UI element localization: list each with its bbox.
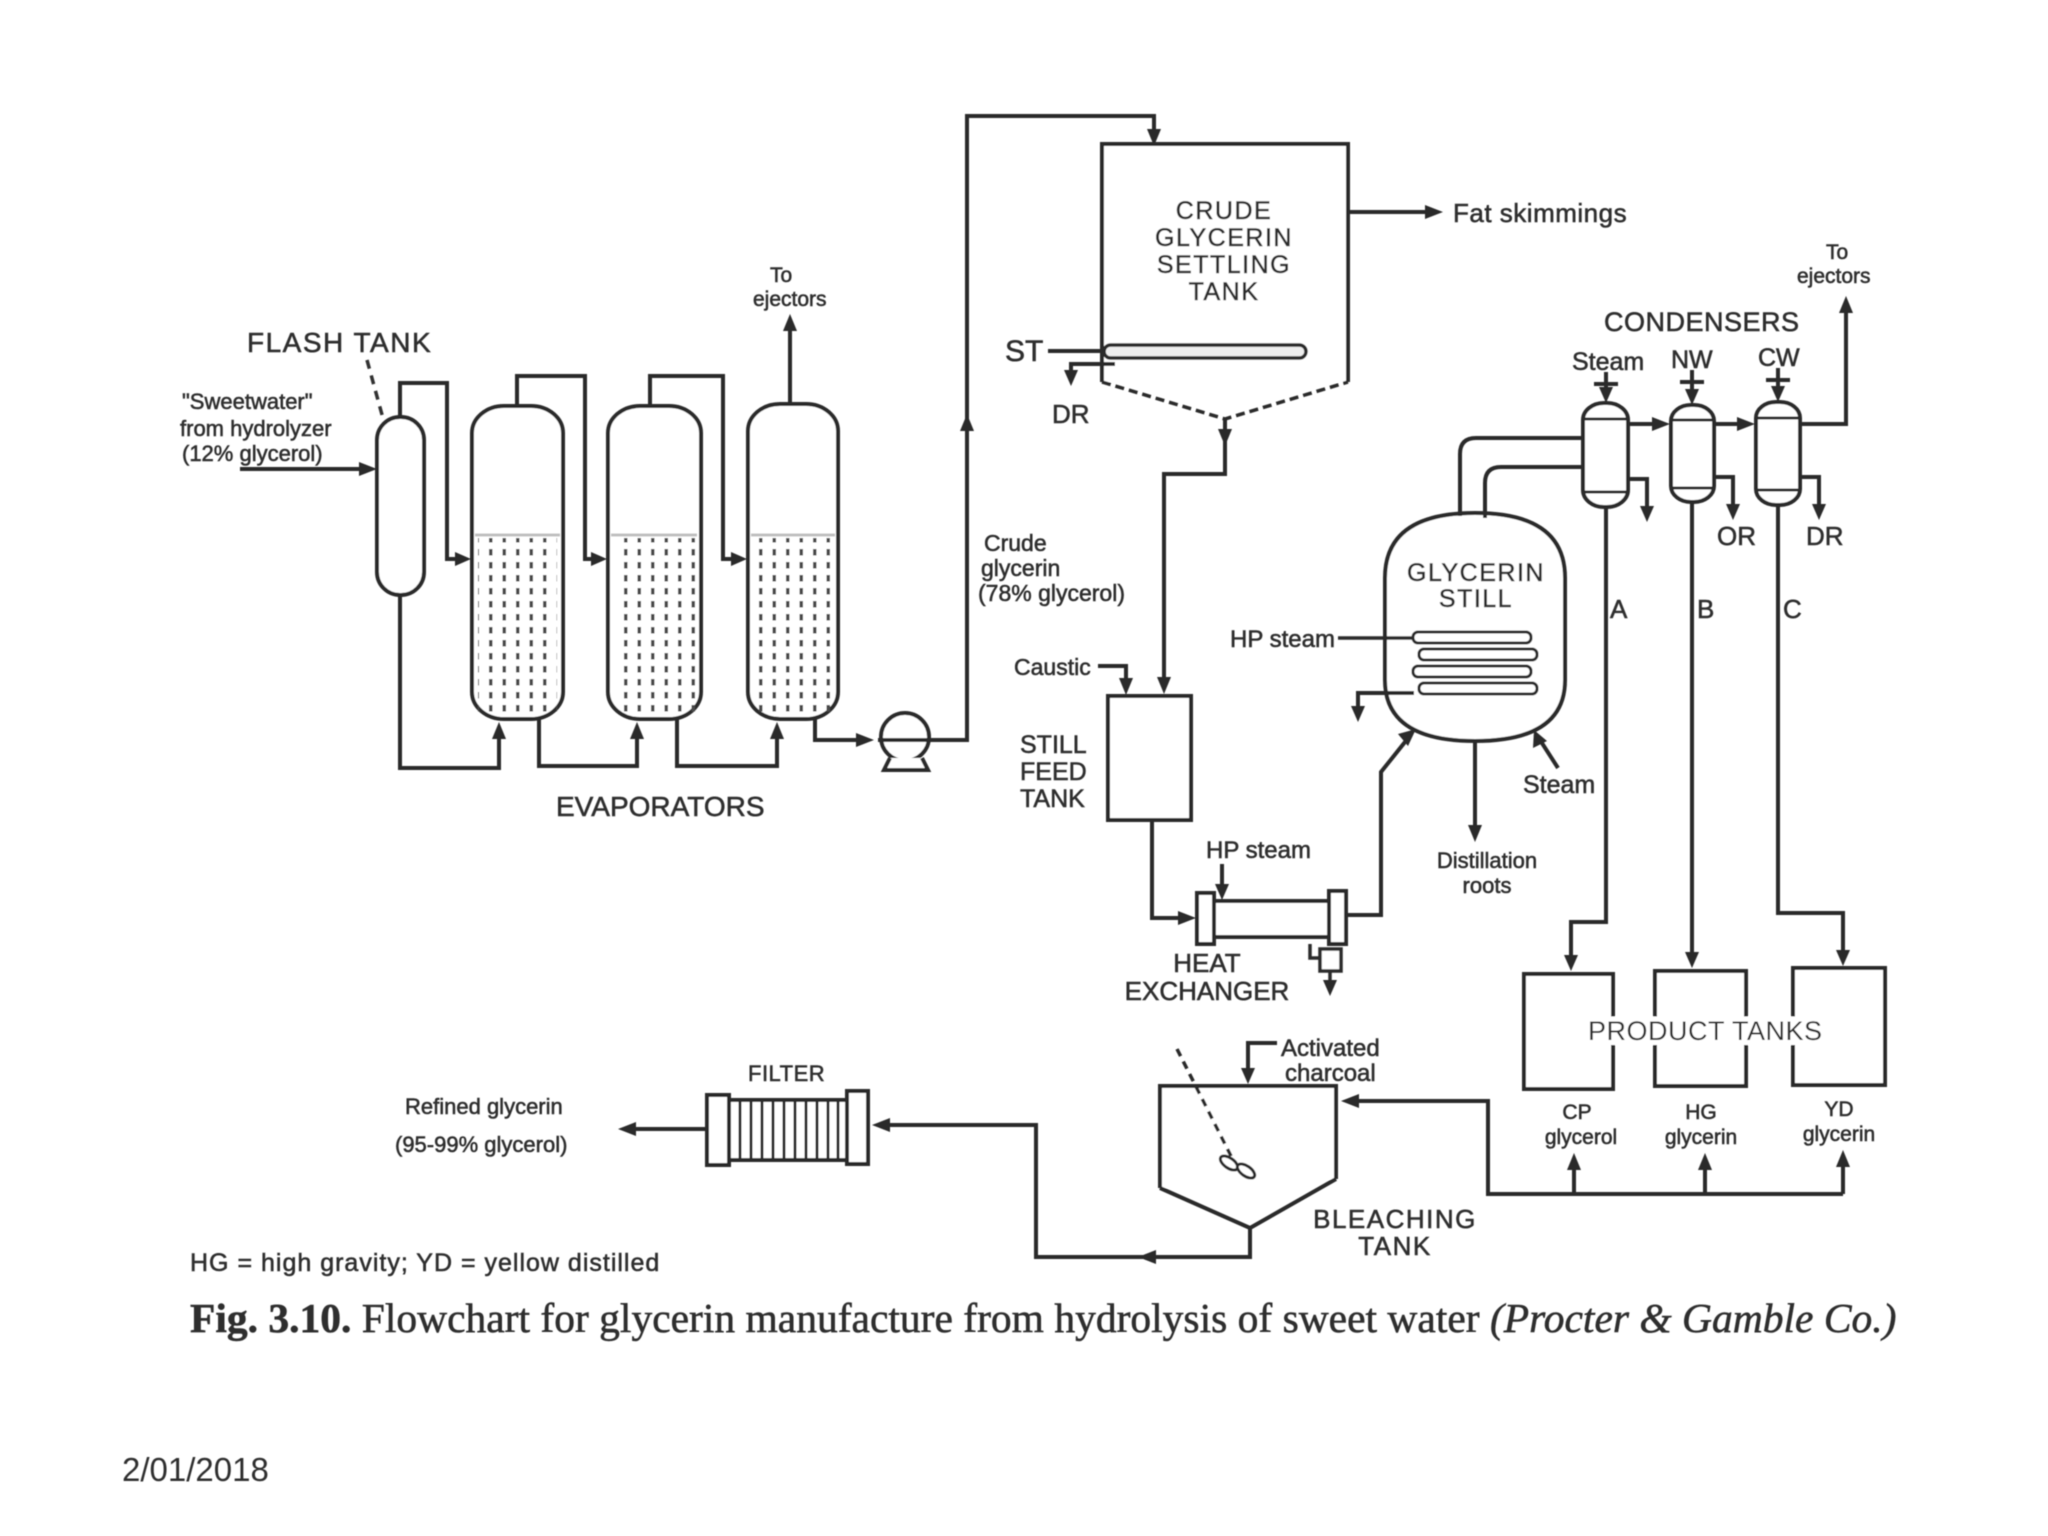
condenser 1 drain bbox=[1628, 479, 1647, 512]
wire: DR drain line bbox=[1071, 364, 1115, 376]
svg-text:glycerol: glycerol bbox=[1545, 1126, 1617, 1149]
svg-text:(12% glycerol): (12% glycerol) bbox=[182, 441, 323, 466]
heat exchanger shell bbox=[1197, 891, 1346, 944]
still feed tank bbox=[1108, 696, 1191, 820]
pump bbox=[881, 713, 929, 770]
svg-text:ST: ST bbox=[1005, 335, 1043, 368]
wire: sweetwater feed arrow bbox=[240, 462, 377, 476]
wire: evap1 bottoms to evap2 bbox=[539, 719, 637, 766]
condenser 2 drain bbox=[1714, 477, 1733, 510]
wire: line B to product tank 2 bbox=[1690, 502, 1694, 959]
wire: still feed tank to heat exchanger bbox=[1152, 820, 1186, 918]
svg-text:CW: CW bbox=[1758, 344, 1800, 372]
svg-text:Fig. 3.10. Flowchart for glyc: Fig. 3.10. Flowchart for glycerin manufa… bbox=[190, 1295, 1896, 1342]
wire: condenser1 to condenser2 bbox=[1628, 422, 1662, 426]
svg-text:CRUDE: CRUDE bbox=[1176, 197, 1272, 225]
svg-text:(78% glycerol): (78% glycerol) bbox=[978, 580, 1125, 606]
wire: fat skimmings arrow bbox=[1348, 210, 1428, 214]
label Refined glycerin bbox=[395, 1094, 567, 1157]
still heating coil bbox=[1413, 632, 1537, 694]
wire: HX outlet to glycerin still bbox=[1346, 737, 1409, 915]
svg-text:HG: HG bbox=[1685, 1101, 1717, 1124]
wire: refined glycerin outlet bbox=[630, 1127, 707, 1131]
wire: evap3 bottoms to pump bbox=[815, 719, 860, 740]
wire: HP steam arrow into HX bbox=[1220, 864, 1224, 893]
svg-text:YD: YD bbox=[1824, 1098, 1853, 1121]
evaporator 2 packing dots bbox=[614, 538, 695, 712]
svg-text:glycerin: glycerin bbox=[1803, 1123, 1875, 1146]
wire: ST line bbox=[1048, 349, 1110, 353]
svg-text:Refined glycerin: Refined glycerin bbox=[405, 1094, 563, 1119]
condenser 3 drain bbox=[1800, 477, 1819, 510]
evaporator 2 liquid level bbox=[611, 534, 697, 537]
svg-text:PRODUCT TANKS: PRODUCT TANKS bbox=[1588, 1016, 1823, 1046]
wire: still overhead duct to condenser 1 (outer) bbox=[1460, 438, 1583, 516]
svg-text:glycerin: glycerin bbox=[1665, 1126, 1737, 1149]
wire: flash tank vapor line to evaporator 1 bbox=[400, 383, 462, 559]
wire: YD tank draw-off bbox=[1841, 1159, 1845, 1194]
svg-text:CP: CP bbox=[1562, 1101, 1591, 1124]
HX condensate trap bbox=[1310, 944, 1341, 988]
svg-text:HP steam: HP steam bbox=[1206, 837, 1311, 864]
svg-text:HEAT: HEAT bbox=[1173, 948, 1241, 978]
label GLYCERIN STILL bbox=[1407, 559, 1545, 613]
condenser 2 inlet arrow bbox=[1680, 370, 1704, 398]
svg-text:glycerin: glycerin bbox=[981, 555, 1060, 581]
svg-text:C: C bbox=[1783, 594, 1802, 624]
wire: line C to product tank 3 bbox=[1778, 505, 1843, 957]
wire: line A to product tank 1 bbox=[1571, 507, 1606, 962]
wire: activated charcoal feed bbox=[1248, 1043, 1277, 1074]
evaporator 2 bbox=[608, 406, 701, 719]
wire: product collection header bbox=[1350, 1101, 1843, 1194]
svg-text:CONDENSERS: CONDENSERS bbox=[1604, 307, 1800, 337]
label To ejectors (right) bbox=[1797, 241, 1871, 288]
wire: HG tank draw-off bbox=[1703, 1162, 1707, 1194]
svg-text:HP steam: HP steam bbox=[1230, 626, 1335, 653]
label sweetwater feed bbox=[180, 389, 332, 466]
label YD glycerin bbox=[1803, 1098, 1875, 1146]
svg-text:DR: DR bbox=[1806, 521, 1844, 551]
svg-text:B: B bbox=[1697, 594, 1714, 624]
wire: caustic feed bbox=[1098, 666, 1126, 686]
evaporator 1 packing dots bbox=[478, 538, 557, 712]
svg-text:Distillation: Distillation bbox=[1437, 848, 1537, 873]
condenser 3 inlet arrow bbox=[1766, 368, 1790, 395]
svg-text:STILL: STILL bbox=[1020, 731, 1087, 759]
wire: steam into still bottom bbox=[1540, 740, 1558, 768]
svg-text:FEED: FEED bbox=[1020, 758, 1087, 786]
condenser 3 bbox=[1756, 402, 1800, 505]
wire: condenser2 to condenser3 bbox=[1714, 422, 1748, 426]
filter body bbox=[707, 1091, 868, 1165]
evaporator 3 bbox=[748, 404, 838, 719]
product tank 2 (HG) bbox=[1655, 971, 1746, 1086]
svg-text:To: To bbox=[1826, 241, 1848, 264]
label HG glycerin bbox=[1665, 1101, 1737, 1149]
wire: evap1 vapor line to evap2 bbox=[517, 376, 600, 559]
glycerin still vessel bbox=[1385, 513, 1565, 741]
label BLEACHING TANK bbox=[1313, 1204, 1477, 1261]
condenser 2 bbox=[1671, 405, 1714, 502]
svg-text:ejectors: ejectors bbox=[1797, 265, 1871, 288]
svg-text:EVAPORATORS: EVAPORATORS bbox=[556, 791, 765, 822]
svg-text:OR: OR bbox=[1717, 521, 1756, 551]
svg-text:Steam: Steam bbox=[1572, 348, 1644, 376]
svg-text:BLEACHING: BLEACHING bbox=[1313, 1204, 1477, 1234]
bleaching tank body bbox=[1160, 1086, 1336, 1188]
wire: condenser3 to ejectors bbox=[1800, 308, 1846, 424]
evaporator 1 liquid level bbox=[475, 534, 560, 537]
evaporator 3 liquid level bbox=[751, 534, 835, 537]
evaporator 3 packing dots bbox=[754, 538, 834, 712]
svg-text:NW: NW bbox=[1671, 346, 1713, 374]
label Distillation roots bbox=[1437, 848, 1537, 898]
bleaching tank agitator (dashed shaft) bbox=[1177, 1049, 1233, 1160]
wire: bleaching tank outlet to filter bbox=[880, 1125, 1250, 1257]
svg-text:roots: roots bbox=[1463, 873, 1512, 898]
label HEAT EXCHANGER bbox=[1125, 948, 1290, 1006]
svg-text:STILL: STILL bbox=[1439, 585, 1513, 613]
product tank 1 (CP) bbox=[1524, 974, 1613, 1089]
svg-text:ejectors: ejectors bbox=[753, 288, 827, 311]
wire: distillation foots outlet bbox=[1473, 741, 1477, 832]
svg-text:A: A bbox=[1610, 594, 1628, 624]
svg-text:TANK: TANK bbox=[1358, 1231, 1431, 1261]
svg-text:TANK: TANK bbox=[1189, 278, 1260, 306]
label crude glycerin 78% bbox=[978, 530, 1125, 606]
condenser 1 bbox=[1583, 403, 1628, 507]
svg-text:Caustic: Caustic bbox=[1014, 654, 1091, 680]
svg-text:from hydrolyzer: from hydrolyzer bbox=[180, 416, 332, 441]
svg-text:Crude: Crude bbox=[984, 530, 1047, 556]
wire: settling tank bottoms to still feed tank bbox=[1164, 419, 1225, 684]
wire: HP steam line into coil bbox=[1338, 636, 1419, 640]
wire: still overhead duct to condenser 1 (inner) bbox=[1485, 467, 1583, 518]
svg-text:SETTLING: SETTLING bbox=[1157, 251, 1291, 279]
svg-text:FLASH TANK: FLASH TANK bbox=[247, 327, 432, 358]
svg-text:"Sweetwater": "Sweetwater" bbox=[182, 389, 313, 414]
flash tank vessel bbox=[377, 417, 424, 595]
svg-text:GLYCERIN: GLYCERIN bbox=[1155, 224, 1293, 252]
svg-text:(95-99% glycerol): (95-99% glycerol) bbox=[395, 1132, 567, 1157]
bleaching tank funnel bbox=[1160, 1179, 1336, 1228]
leader to flash tank (dashed) bbox=[367, 360, 384, 422]
evaporator 1 bbox=[472, 406, 563, 719]
svg-text:EXCHANGER: EXCHANGER bbox=[1125, 976, 1290, 1006]
condenser 1 inlet arrow bbox=[1594, 372, 1618, 396]
svg-text:GLYCERIN: GLYCERIN bbox=[1407, 559, 1545, 587]
label STILL FEED TANK bbox=[1020, 731, 1087, 813]
settling tank funnel bbox=[1102, 382, 1348, 419]
svg-text:TANK: TANK bbox=[1020, 785, 1085, 813]
wire: evap2 bottoms to evap3 bbox=[677, 719, 777, 766]
svg-text:Steam: Steam bbox=[1523, 771, 1595, 799]
filter plates bbox=[740, 1100, 838, 1160]
wire: evap3 vapor riser to ejectors bbox=[788, 326, 792, 404]
crude glycerin settling tank bbox=[1102, 144, 1348, 382]
svg-text:2/01/2018: 2/01/2018 bbox=[122, 1451, 269, 1488]
svg-text:To: To bbox=[770, 264, 792, 287]
steam sparger bbox=[1104, 345, 1306, 358]
svg-text:FILTER: FILTER bbox=[748, 1061, 825, 1086]
svg-text:Activated: Activated bbox=[1281, 1035, 1380, 1062]
label Activated charcoal bbox=[1281, 1035, 1380, 1087]
svg-text:DR: DR bbox=[1052, 399, 1090, 429]
wire: flash tank bottoms line bbox=[400, 595, 499, 768]
still left drain bbox=[1358, 693, 1414, 712]
svg-text:charcoal: charcoal bbox=[1285, 1060, 1376, 1087]
wire: CP tank draw-off bbox=[1572, 1162, 1576, 1194]
agitator propeller bbox=[1218, 1153, 1257, 1181]
wire: pump discharge riser to settling tank bbox=[878, 116, 1154, 740]
svg-text:HG = high gravity; YD = yellow: HG = high gravity; YD = yellow distilled bbox=[190, 1249, 660, 1277]
label CP glycerol bbox=[1545, 1101, 1617, 1149]
wire: evap2 vapor line to evap3 bbox=[650, 376, 739, 559]
label CRUDE GLYCERIN SETTLING TANK bbox=[1155, 197, 1293, 306]
product tank 3 (YD) bbox=[1793, 968, 1885, 1085]
label To ejectors (left) bbox=[753, 264, 827, 311]
svg-text:Fat skimmings: Fat skimmings bbox=[1453, 198, 1627, 228]
